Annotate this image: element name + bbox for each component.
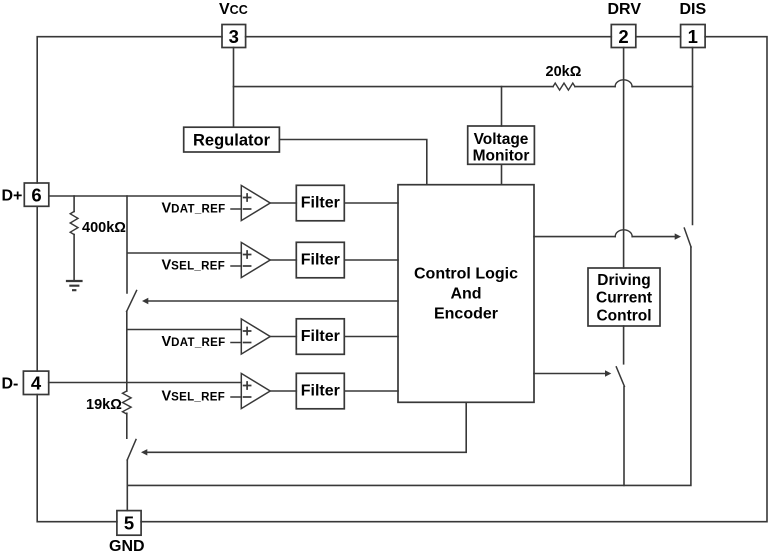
arrow control logic to SW1 (147, 300, 398, 302)
svg-text:Filter: Filter (301, 328, 340, 345)
ground symbol (67, 281, 82, 290)
svg-text:DIS: DIS (680, 1, 707, 18)
wire filter3 to control logic (344, 336, 398, 338)
svg-text:Filter: Filter (301, 195, 340, 212)
wire filter1 to control logic (344, 202, 398, 204)
svg-text:Regulator: Regulator (193, 131, 271, 149)
filter box 1 (296, 185, 344, 221)
wire D- rail from pin4 to comparator 4 (49, 382, 242, 384)
wire hop over DRV line at arrow rail (615, 230, 632, 237)
resistor 400k zigzag (70, 212, 78, 235)
wire D+ rail from pin6 to comparator 1 (49, 195, 242, 197)
wire comparator1 to filter1 (270, 202, 296, 204)
pin 2 box (DRV) (611, 25, 636, 48)
svg-text:Filter: Filter (301, 252, 340, 269)
wire comparator 3 input rail (127, 329, 242, 331)
svg-text:GND: GND (109, 538, 145, 555)
wire hop over DRV line at 20k rail (615, 80, 632, 87)
switch SW3 (DIS) (684, 228, 691, 247)
pin 1 box (DIS) (681, 25, 706, 48)
voltage monitor box (468, 126, 535, 164)
filter box 4 (296, 373, 344, 409)
pin 4 box (D-) (23, 371, 48, 394)
resistor 19k zigzag (123, 391, 132, 414)
resistor 20k zigzag (553, 83, 575, 90)
comparator A3 (VDAT_REF) (231, 319, 270, 354)
svg-text:400kΩ: 400kΩ (82, 220, 126, 236)
arrow control logic to SW2 (146, 402, 466, 452)
svg-text:1: 1 (688, 26, 698, 47)
svg-text:VDAT_REF: VDAT_REF (162, 334, 226, 350)
svg-text:20kΩ: 20kΩ (546, 64, 582, 80)
wire 400k branch (73, 196, 75, 212)
svg-text:Control Logic: Control Logic (414, 266, 518, 283)
wire 19k to SW2 (126, 413, 128, 438)
svg-text:Driving: Driving (597, 272, 650, 289)
svg-text:Voltage: Voltage (474, 131, 529, 148)
wire DIS pin1 column upper (692, 48, 694, 225)
wire comparator2 to filter2 (270, 259, 296, 261)
svg-text:D+: D+ (2, 187, 23, 204)
svg-text:Control: Control (596, 308, 651, 325)
wire DCC to SW4 (623, 326, 625, 364)
filter box 2 (296, 242, 344, 277)
svg-text:D-: D- (2, 376, 19, 393)
driving current control box (588, 268, 660, 326)
pin 5 box (GND) (117, 511, 141, 536)
wire comparator3 to filter3 (270, 336, 296, 338)
svg-text:4: 4 (31, 373, 42, 394)
svg-text:Encoder: Encoder (434, 306, 498, 323)
svg-text:And: And (450, 286, 481, 303)
svg-text:19kΩ: 19kΩ (86, 397, 122, 413)
pin 3 box (VCC) (222, 25, 246, 48)
wire voltage monitor feed (501, 87, 503, 126)
wire below SW3 to bottom rail corner (127, 247, 691, 485)
wire comparator4 to filter4 (270, 390, 296, 392)
comparator A4 (VSEL_REF) (231, 373, 270, 408)
svg-text:3: 3 (229, 26, 239, 47)
wire D+ branch column to VSEL comparator 2 (127, 196, 241, 293)
switch SW4 (DRV) (616, 367, 624, 386)
wire filter2 to control logic (344, 259, 398, 261)
svg-text:VSEL_REF: VSEL_REF (162, 388, 226, 404)
arrow control logic to SW3 with hop (534, 236, 676, 238)
wire 400k to ground (73, 235, 75, 280)
comparator A1 (VDAT_REF) (231, 185, 270, 220)
svg-text:5: 5 (124, 513, 134, 534)
wire below SW1 down through D- rail to 19k (126, 312, 128, 392)
svg-text:Current: Current (596, 290, 652, 307)
svg-text:DRV: DRV (608, 1, 642, 18)
pin 6 box (D+) (24, 183, 49, 206)
wire regulator output to control logic (279, 140, 426, 185)
switch SW2 (D- sel) (127, 440, 136, 461)
wire below SW2 to GND pin (126, 460, 128, 511)
svg-text:2: 2 (618, 26, 628, 47)
wire voltage monitor to control logic (501, 164, 503, 184)
wire filter4 to control logic (344, 390, 398, 392)
wire below SW4 to bottom rail (623, 387, 625, 486)
svg-text:VSEL_REF: VSEL_REF (162, 257, 226, 273)
wire DRV pin2 to driving current control (623, 48, 625, 269)
svg-text:VDAT_REF: VDAT_REF (162, 200, 226, 216)
wire 20k rail from VCC node to DIS column (234, 86, 693, 88)
regulator U-REG box (184, 127, 280, 152)
svg-text:Filter: Filter (301, 383, 340, 400)
svg-text:VCC: VCC (219, 1, 248, 18)
control logic and encoder box (398, 185, 534, 403)
comparator A2 (VSEL_REF) (231, 242, 270, 277)
switch SW1 (D+ sel) (127, 291, 137, 312)
svg-text:Monitor: Monitor (473, 148, 530, 165)
arrow control logic to SW4 (534, 373, 606, 375)
wire VCC pin3 to regulator (233, 48, 235, 128)
filter box 3 (296, 319, 344, 355)
svg-text:6: 6 (31, 184, 41, 205)
